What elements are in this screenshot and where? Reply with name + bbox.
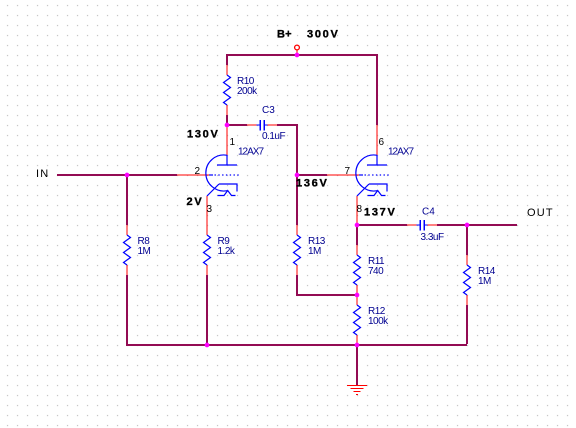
node 136V junction — [295, 173, 300, 178]
resistor R10 200k — [224, 65, 259, 115]
wire R14 bottom to rail — [466, 305, 468, 344]
wire rail to R10 top — [226, 54, 228, 65]
svg-text:12AX7: 12AX7 — [238, 147, 264, 158]
node 137V junction — [355, 223, 360, 228]
wire IN to tube1 grid — [57, 174, 177, 176]
svg-text:136V: 136V — [296, 178, 329, 190]
wire R8 bottom to bottom rail — [126, 275, 128, 345]
ground — [347, 386, 367, 395]
svg-text:0.1uF: 0.1uF — [262, 131, 285, 142]
svg-text:C4: C4 — [422, 207, 435, 218]
svg-text:7: 7 — [345, 166, 351, 177]
wire rail down to tube2 plate — [376, 54, 378, 125]
svg-text:100k: 100k — [368, 316, 389, 327]
resistor R14 1M — [464, 255, 496, 305]
svg-text:2: 2 — [195, 166, 201, 177]
wire bottom rail — [126, 344, 467, 346]
svg-text:137V: 137V — [364, 207, 397, 219]
wire C3 right to corner — [277, 124, 297, 126]
wire corner down to 136V node — [296, 124, 298, 175]
node R11-R12-R13 junction — [355, 293, 360, 298]
capacitor C4 3.3uF — [407, 207, 444, 244]
svg-text:3: 3 — [207, 204, 213, 215]
svg-text:740: 740 — [368, 266, 384, 277]
svg-text:200k: 200k — [237, 86, 258, 97]
power symbol B+ bubble — [295, 45, 300, 55]
wire IN node down to R8 — [126, 175, 128, 225]
wire corner to mid junction — [296, 294, 357, 296]
svg-text:6: 6 — [379, 137, 385, 148]
wire 130V node to C3 left — [226, 124, 247, 126]
node 130V junction — [225, 123, 230, 128]
wire 136V node down to R13 — [296, 175, 298, 225]
wire R10 bottom to 130V node — [226, 115, 228, 125]
svg-text:3.3uF: 3.3uF — [421, 232, 444, 243]
svg-text:1.2k: 1.2k — [218, 246, 236, 257]
svg-text:130V: 130V — [187, 129, 220, 141]
svg-text:2V: 2V — [187, 196, 204, 208]
resistor R9 1.2k — [204, 225, 236, 275]
node OUT junction — [465, 223, 470, 228]
capacitor C3 0.1uF — [247, 105, 285, 142]
resistor R8 1M — [124, 225, 151, 275]
wire top B+ rail — [227, 54, 377, 56]
wire 137V node to C4 — [357, 224, 407, 226]
wire OUT node down to R14 — [466, 225, 468, 255]
wire 137V node down to R11 — [356, 225, 358, 245]
wire rail to ground — [356, 345, 358, 385]
resistor R13 1M — [294, 225, 326, 275]
tube U1 triode 1 12AX7 — [177, 125, 264, 225]
svg-text:300V: 300V — [307, 29, 340, 41]
tube U2 triode 2 12AX7 — [327, 125, 414, 225]
wire 136V node to tube2 grid — [297, 174, 327, 176]
node IN junction — [125, 173, 130, 178]
wire C4 right to OUT — [437, 224, 517, 226]
svg-text:12AX7: 12AX7 — [388, 147, 414, 158]
svg-text:1M: 1M — [478, 276, 491, 287]
wire R9 bottom to rail — [206, 275, 208, 345]
svg-text:OUT: OUT — [527, 207, 554, 219]
svg-text:1M: 1M — [138, 246, 151, 257]
node ground junction — [355, 343, 360, 348]
svg-text:1: 1 — [230, 137, 236, 148]
svg-text:8: 8 — [357, 204, 363, 215]
resistor R12 100k — [354, 295, 390, 345]
svg-text:C3: C3 — [262, 105, 275, 116]
node B+ junction — [295, 53, 300, 58]
wire R13 bottom to corner — [296, 275, 298, 295]
svg-text:B+: B+ — [277, 29, 292, 41]
node R9 bottom junction — [205, 343, 210, 348]
svg-text:IN: IN — [36, 168, 49, 180]
resistor R11 740 — [354, 245, 386, 295]
svg-text:1M: 1M — [308, 246, 321, 257]
